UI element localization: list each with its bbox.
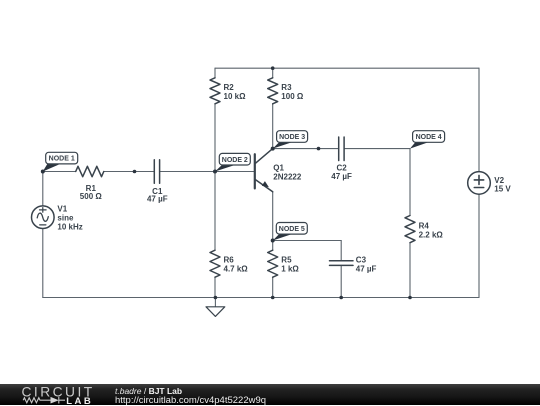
wire R2 bottom to NODE2	[214, 104, 216, 172]
capacitor C2	[339, 137, 344, 161]
wire NODE3 to C2	[273, 148, 339, 150]
footer url text	[115, 396, 266, 406]
wire NODE4 down to R4	[409, 149, 411, 216]
resistor R4	[405, 216, 415, 243]
wire R4 bottom to rail	[409, 243, 411, 298]
wire R1 to C1	[104, 171, 155, 173]
wire C3 top lead	[340, 241, 342, 261]
wire R3 bottom to NODE3	[272, 104, 274, 149]
footer title text	[115, 387, 182, 396]
node E label NODE 5	[273, 223, 308, 241]
node D label NODE 4	[410, 131, 445, 149]
node top rail R3 tap	[271, 66, 275, 70]
wire R5 bottom to rail	[272, 277, 274, 297]
resistor R2	[210, 78, 220, 104]
source V2	[468, 172, 491, 195]
node A label NODE 1	[43, 152, 78, 171]
wire ground lead	[214, 298, 216, 307]
value label C1	[147, 187, 168, 204]
wire R3 top lead	[272, 68, 274, 78]
capacitor C3	[330, 261, 354, 266]
wire R6 bottom to rail	[214, 277, 216, 297]
value label R3	[281, 83, 304, 101]
svg-text:LAB: LAB	[66, 396, 93, 405]
node B label NODE 2	[215, 153, 250, 171]
node ground tap	[214, 296, 218, 300]
ground	[206, 307, 225, 317]
wire NODE5 to R5 top	[272, 241, 274, 251]
wire NODE1 to R1	[43, 171, 76, 173]
value label R2	[224, 83, 247, 101]
node NODE 5 junction	[271, 239, 275, 243]
resistor R1	[76, 166, 104, 176]
resistor R6	[210, 250, 220, 277]
wire NODE2 to R6 top	[214, 172, 216, 251]
node wire joint C2 line	[317, 147, 321, 151]
wire V1 bottom to bottom rail	[42, 229, 44, 298]
node R4 bottom	[408, 296, 412, 300]
wire C1 to Q1 base	[160, 171, 255, 173]
value label V1	[57, 204, 82, 231]
transistor Q1	[255, 149, 273, 192]
value label R5	[281, 256, 299, 274]
footer bar	[0, 384, 540, 405]
value label R6	[224, 256, 249, 274]
wire NODE5 to C3	[273, 240, 342, 242]
wire C2 to NODE4	[344, 148, 410, 150]
node R5 bottom	[271, 296, 275, 300]
source V1	[32, 206, 55, 229]
wire R2 top lead	[214, 68, 216, 78]
wire Q1 emitter to NODE5	[272, 192, 274, 241]
wire right drop to V2 top	[478, 68, 480, 171]
wire left vertical NODE1 to V1	[42, 172, 44, 207]
capacitor C1	[154, 160, 159, 184]
wire bottom rail	[43, 297, 479, 299]
value label V2	[494, 176, 511, 194]
value label Q1	[273, 163, 302, 181]
value label C2	[331, 164, 352, 182]
wire V2 bottom to bottom rail	[478, 194, 480, 297]
node NODE 1 junction	[41, 170, 45, 174]
node NODE 3 junction	[271, 147, 275, 151]
value label R4	[419, 222, 444, 240]
value label R1	[80, 184, 103, 201]
node wire joint R1-C1	[133, 170, 137, 174]
value label C3	[356, 255, 377, 273]
node C3 bottom	[339, 296, 343, 300]
node C label NODE 3	[273, 131, 308, 149]
resistor R3	[268, 78, 278, 104]
resistor R5	[268, 250, 278, 277]
wire top rail	[215, 67, 479, 69]
node NODE 2 junction	[213, 170, 217, 174]
wire C3 bottom to rail	[340, 265, 342, 297]
